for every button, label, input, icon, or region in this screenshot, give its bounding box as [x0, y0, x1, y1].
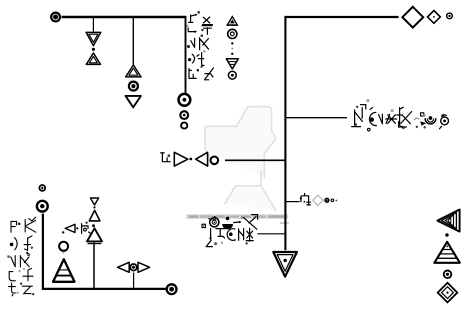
glyph label block A row3: [187, 35, 208, 50]
valve V6 triangle-up: [89, 210, 100, 221]
wire W7 branch to label row C: [285, 117, 347, 119]
watermark text band: [186, 214, 289, 224]
diamond D3 nested far-right: [438, 283, 458, 303]
glyph row near valve V7: [62, 222, 91, 234]
node dot N2: [93, 206, 95, 208]
label row F dot: [336, 200, 338, 202]
node dot N3: [92, 224, 95, 227]
wire W5 top-right horizontal: [285, 16, 398, 18]
tank K2 layered triangle-up far-right: [434, 242, 459, 263]
terminal T3 circled-dot bottom: [167, 284, 177, 294]
label row F small circle: [331, 199, 334, 202]
node dot N1: [92, 48, 95, 51]
wire W10 bottom-left L run: [42, 214, 166, 289]
node dots column E: [231, 42, 233, 44]
wire W3 stub to valve V1: [92, 18, 94, 32]
glyph cluster D: [202, 215, 258, 247]
glyph label block A row5: [189, 68, 213, 80]
far-right concentric triangle-left: [437, 210, 459, 232]
diamond D2 small with dot: [428, 11, 441, 24]
glyph label block B row1: [11, 217, 36, 232]
indicator I6 small circled-dot bottom-left: [39, 185, 45, 191]
valve V5 small triangle-down: [90, 198, 98, 205]
wire W13 from U1 to trunk: [225, 159, 285, 161]
node dot N5: [445, 233, 448, 236]
glyph label near U1: [161, 153, 171, 162]
wire W6 main right trunk: [284, 16, 286, 250]
glyph label block A row4: [188, 50, 205, 67]
ground G1 triangle-down with dot: [273, 252, 297, 277]
glyph label block B row4: [9, 268, 33, 284]
terminal T2 circled-dot: [37, 201, 48, 212]
valve V7 big triangle-up: [87, 228, 102, 243]
node dot N4 faint: [63, 252, 65, 254]
valve V4 triangle-down: [126, 96, 141, 108]
wire W9 branch from cluster D: [258, 233, 286, 235]
watermark bolt logo: [205, 107, 276, 211]
label row F diamond faint: [313, 195, 323, 205]
glyph label block A row2: [187, 25, 213, 34]
terminal T1 circled-dot top-left: [51, 13, 60, 22]
wire W4 stub to valve V3: [132, 18, 134, 65]
tank K1 layered triangle-up: [53, 259, 74, 282]
indicator I8 circled-dot far-right: [444, 271, 452, 279]
indicator I7 open circle: [59, 242, 68, 251]
label row F double circle: [325, 198, 329, 202]
indicator I5 circled-dot top-right: [447, 13, 453, 19]
glyph label row F runes: [300, 194, 311, 205]
glyph label block B row5: [9, 283, 34, 296]
indicator I4 open circle: [181, 122, 187, 128]
indicator I2 big circled-dot: [179, 94, 191, 106]
indicator column E filled triangle: [226, 15, 239, 26]
indicator column E layered triangle-down: [226, 59, 238, 69]
indicator column E double circle: [228, 29, 237, 38]
glyph label block A row1: [189, 12, 213, 25]
glyph label row C: [352, 100, 449, 131]
wire W8 branch to label row F: [285, 201, 299, 203]
wire W11 drop from valve V7: [93, 242, 95, 288]
indicator I3 circled-dot: [180, 111, 188, 119]
valve V3 triangle-up double: [126, 65, 141, 77]
wire W12 drop from valve V8: [133, 273, 135, 289]
wire W1 top-left horizontal bus: [62, 16, 187, 18]
glyph label block B row3: [7, 254, 29, 270]
wire W2 left vertical from bus corner: [185, 17, 187, 93]
valve V8 bowtie left-right with circled-dot: [118, 262, 150, 272]
glyph label block B row2: [10, 236, 33, 254]
indicator column E circled-dot: [228, 71, 236, 79]
indicator I1 circled-dot: [129, 82, 138, 91]
valve V1 triangle-down double: [86, 32, 101, 45]
diamond D1 large: [402, 7, 423, 28]
component U1 bowtie valve with circle: [174, 152, 218, 166]
valve V2 triangle-up double: [86, 53, 100, 64]
